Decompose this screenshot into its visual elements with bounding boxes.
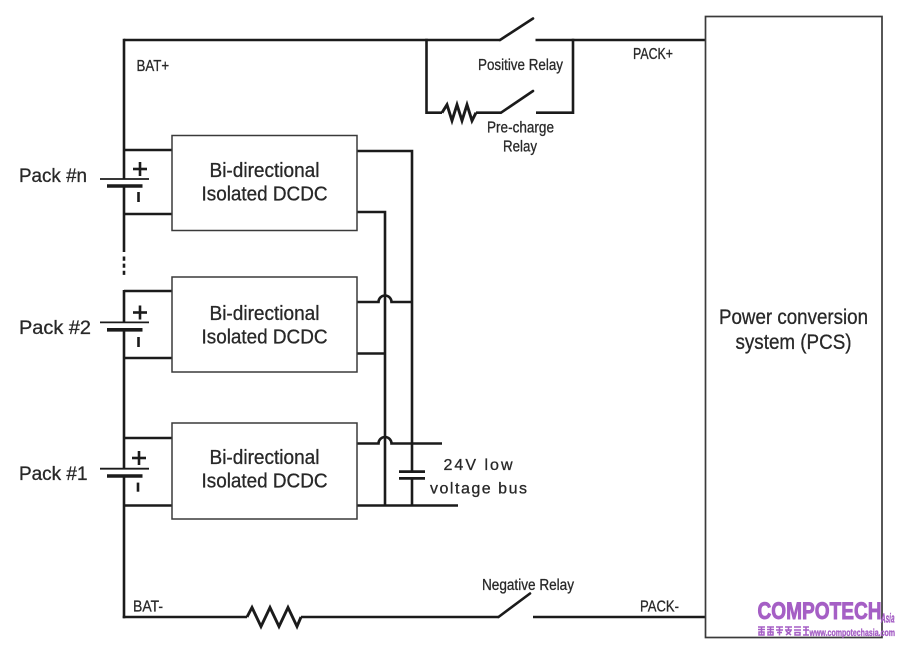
wire left bus segment top	[123, 39, 126, 179]
svg-text:PACK-: PACK-	[640, 599, 679, 616]
wire left bus below battery n	[123, 186, 126, 252]
svg-text:Bi-directional: Bi-directional	[210, 160, 320, 182]
box PCS	[706, 17, 883, 638]
svg-text:COMPOTECH: COMPOTECH	[758, 598, 882, 625]
battery Pack #2 symbol	[100, 306, 149, 348]
wire PACK- rail to PCS	[533, 616, 706, 619]
wire pre-charge branch left drop	[427, 39, 443, 113]
wire pack 2 to DCDC top	[124, 290, 172, 293]
switch Pre-charge Relay blade	[501, 91, 533, 113]
wire left bus bottom	[123, 476, 126, 618]
wire pack n to DCDC top	[124, 149, 172, 152]
svg-text:Bi-directional: Bi-directional	[210, 447, 320, 469]
wire left bus above battery 2	[123, 290, 126, 322]
wire left bus between battery 2 and battery 1	[123, 330, 126, 469]
wire pack 2 to DCDC bottom	[124, 357, 172, 360]
svg-text:Relay: Relay	[503, 138, 537, 155]
wire pre-charge right stub	[536, 39, 573, 113]
box DCDC 1	[172, 423, 357, 519]
wire BAT- bottom rail left	[123, 616, 247, 619]
svg-text:Pre-charge: Pre-charge	[487, 119, 554, 136]
resistor negative pre-charge bottom	[247, 608, 301, 627]
svg-text:Pack #1: Pack #1	[19, 464, 88, 485]
svg-text:BAT-: BAT-	[133, 599, 163, 616]
svg-text:www.compotechasia.com: www.compotechasia.com	[809, 628, 895, 639]
svg-text:24V low: 24V low	[444, 457, 513, 474]
svg-text:PACK+: PACK+	[633, 46, 673, 63]
wire DCDC n output top	[357, 151, 412, 472]
wire pack 1 to DCDC bottom	[124, 504, 172, 507]
wire DCDC 1 output top 24V rail with hop	[357, 437, 442, 443]
svg-text:Isolated DCDC: Isolated DCDC	[202, 184, 328, 206]
battery Pack #n symbol	[100, 162, 149, 202]
svg-text:Pack #n: Pack #n	[19, 166, 87, 187]
switch Positive Relay blade	[500, 19, 533, 41]
box DCDC n	[172, 136, 357, 231]
svg-text:Isolated DCDC: Isolated DCDC	[202, 327, 328, 349]
wire DCDC n output bottom	[357, 212, 385, 506]
svg-text:Isolated DCDC: Isolated DCDC	[202, 471, 328, 493]
svg-text:Negative Relay: Negative Relay	[482, 577, 574, 594]
wire 24V bus below capacitor	[411, 478, 414, 505]
svg-text:Bi-directional: Bi-directional	[210, 303, 320, 325]
svg-text:Positive Relay: Positive Relay	[478, 57, 563, 74]
wire DCDC 2 output bottom	[357, 352, 385, 355]
wire bottom rail middle	[301, 616, 499, 619]
wire BAT+ top rail right segment to PCS	[536, 39, 707, 42]
switch Negative Relay blade	[499, 594, 531, 618]
logo COMPOTECH Asia	[758, 598, 895, 626]
wire pack n to DCDC bottom	[124, 213, 172, 216]
svg-text:Asia: Asia	[881, 611, 895, 626]
resistor pre-charge	[442, 105, 476, 121]
wire pre-charge to switch	[476, 111, 501, 114]
logo chinese characters approximation	[758, 627, 809, 636]
svg-text:BAT+: BAT+	[137, 58, 170, 75]
wire BAT+ top rail left segment	[124, 39, 500, 42]
svg-text:voltage bus: voltage bus	[430, 481, 527, 498]
battery Pack #1 symbol	[100, 451, 149, 492]
svg-text:system (PCS): system (PCS)	[736, 330, 852, 354]
wire DCDC 2 output top with hop	[357, 296, 412, 303]
wire left bus dotted continuation	[123, 257, 126, 277]
wire pack 1 to DCDC top	[124, 437, 172, 440]
capacitor C 24V bus	[399, 472, 425, 479]
svg-text:Pack #2: Pack #2	[19, 318, 91, 339]
svg-text:Power conversion: Power conversion	[719, 305, 868, 329]
wire 24V bottom rail	[357, 504, 458, 507]
box DCDC 2	[172, 277, 357, 372]
